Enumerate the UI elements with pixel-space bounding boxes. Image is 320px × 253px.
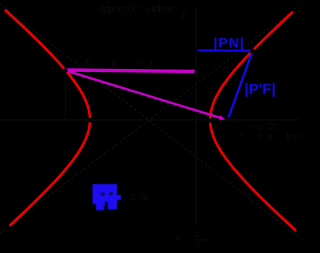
svg-text:l: l — [182, 8, 185, 22]
svg-text:= b²/a: = b²/a — [122, 192, 148, 203]
svg-text:Hyperbel: Leitlinie: Hyperbel: Leitlinie — [95, 4, 175, 15]
svg-text:|PN|: |PN| — [214, 35, 245, 51]
svg-text:c: c — [196, 240, 201, 251]
svg-text:x =: x = — [175, 232, 190, 244]
svg-text:P N = p + e x: P N = p + e x — [72, 58, 156, 69]
svg-text:e = c/a = konst.: e = c/a = konst. — [239, 131, 300, 141]
svg-text:|P′F|: |P′F| — [245, 81, 276, 98]
svg-text:a²: a² — [194, 229, 204, 240]
